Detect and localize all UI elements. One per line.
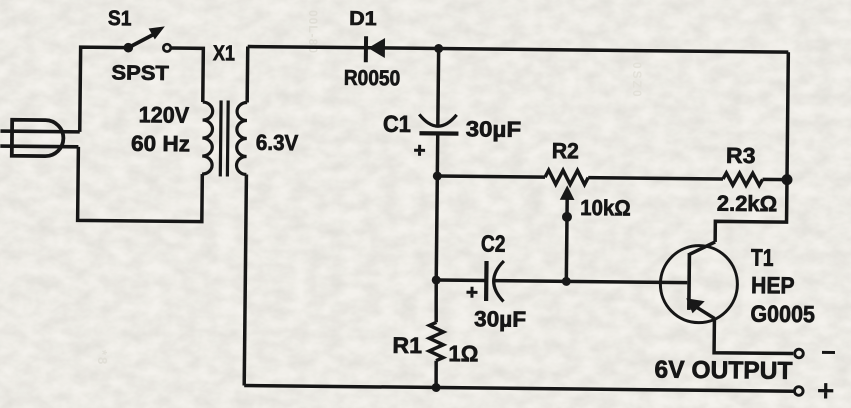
node wiper / base wire [562,277,571,286]
node C2 / R1 [432,275,441,284]
wire R1 bottom lead [434,361,438,388]
svg-text:120V: 120V [139,102,190,128]
node top rail / C1 [434,44,443,53]
svg-text:30µF: 30µF [466,116,522,142]
node C1 / R2 wire [433,171,442,180]
wire R3 to node [763,178,787,182]
terminal minus output [795,349,804,358]
svg-text:S1: S1 [108,7,132,30]
wire C2 left [436,278,485,282]
svg-text:T1: T1 [751,245,774,272]
wire secondary bottom lead [244,175,246,386]
svg-text:2.2kΩ: 2.2kΩ [717,191,778,217]
wire C1 top lead [436,49,440,126]
svg-text:30µF: 30µF [474,306,526,332]
svg-text:SPST: SPST [111,61,169,85]
svg-text:C2: C2 [481,230,506,256]
capacitor C2 [466,261,504,302]
svg-text:R3: R3 [726,143,756,168]
svg-text:G0005: G0005 [750,301,815,328]
transistor T1 [660,241,738,323]
AC plug P1 [12,120,64,157]
transformer X1 primary coil [202,102,213,174]
wire plug lower prong/cord [0,144,78,148]
transformer X1 core [220,100,228,176]
resistor R2 [545,170,588,184]
wire bottom rail [244,386,794,392]
node R3 / right rail [781,174,792,185]
wire switch to transformer primary top [170,48,203,102]
svg-text:R2: R2 [552,138,579,163]
wire left vertical up to switch [80,47,129,132]
svg-text:D1: D1 [349,8,377,30]
diode D1 [366,36,385,62]
label minus [822,351,835,354]
transformer X1 secondary coil [236,102,247,174]
resistor R1 [429,322,443,361]
wire secondary top lead [245,47,249,103]
svg-text:6V OUTPUT: 6V OUTPUT [654,356,792,384]
svg-text:1Ω: 1Ω [448,341,478,366]
wire center vertical C1 node to C2 node [436,176,437,280]
wire primary bottom loop [78,147,203,222]
wire C1 bottom lead [436,136,440,176]
svg-text:10kΩ: 10kΩ [580,195,631,221]
capacitor C1 [414,114,459,156]
svg-text:6.3V: 6.3V [256,130,299,155]
svg-text:X1: X1 [213,41,235,65]
svg-text:C1: C1 [383,111,411,137]
node R1 / bottom rail [432,383,441,392]
wire plug upper prong/cord [0,129,79,133]
label plus [818,383,833,399]
potentiometer R2 wiper arrow [559,185,575,281]
wire right rail [787,52,788,179]
wire R1 top lead [434,280,438,322]
svg-text:HEP: HEP [751,272,795,298]
wire R2 left [437,176,545,177]
node wiper mid dot [562,212,572,222]
wire emitter lead [714,319,793,354]
wire R2 to R3 [588,178,723,179]
svg-text:R0050: R0050 [344,66,401,91]
wire collector path [715,179,787,243]
wire C2 to base [495,281,687,283]
svg-text:R1: R1 [392,333,422,358]
terminal plus output [794,387,803,396]
resistor R3 [723,173,763,185]
svg-text:0SZ0: 0SZ0 [630,62,644,99]
switch S1 [123,26,170,53]
svg-text:*8: *8 [95,350,110,366]
svg-text:60 Hz: 60 Hz [131,131,190,157]
wire top rail [248,47,789,53]
